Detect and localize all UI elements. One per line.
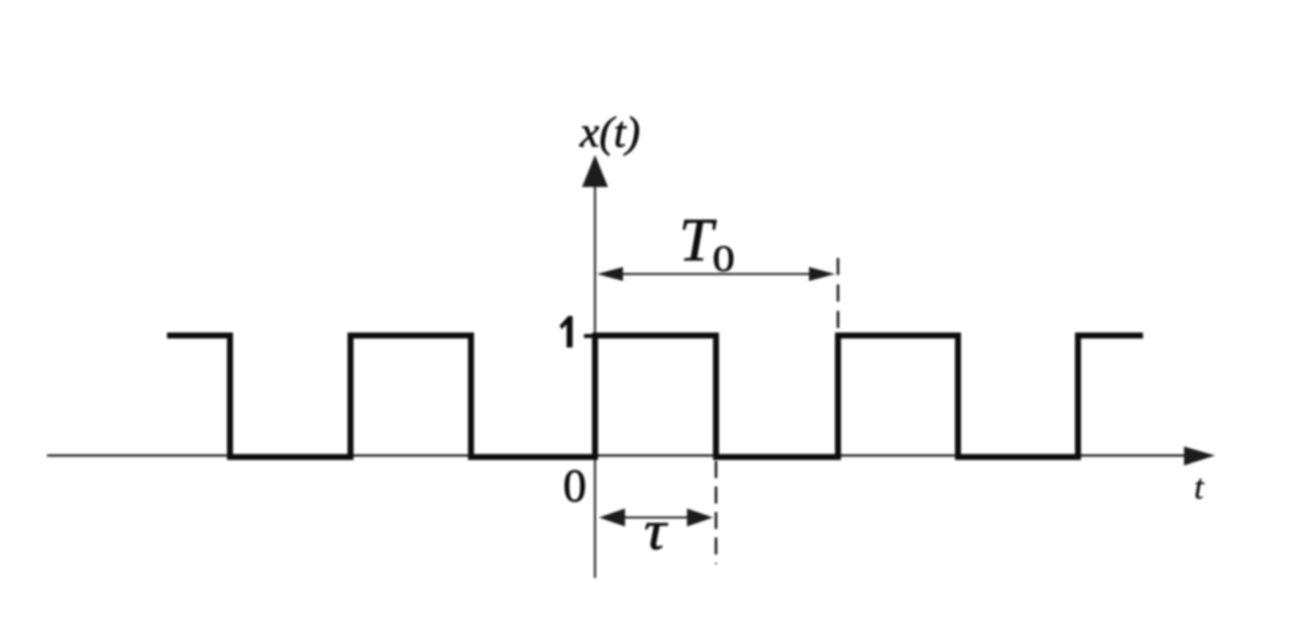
svg-text:0: 0 (713, 239, 735, 279)
svg-text:τ: τ (644, 500, 668, 562)
svg-text:t: t (1194, 467, 1205, 506)
svg-text:T: T (679, 207, 717, 274)
svg-text:x(t): x(t) (579, 109, 640, 157)
svg-text:0: 0 (563, 460, 587, 512)
